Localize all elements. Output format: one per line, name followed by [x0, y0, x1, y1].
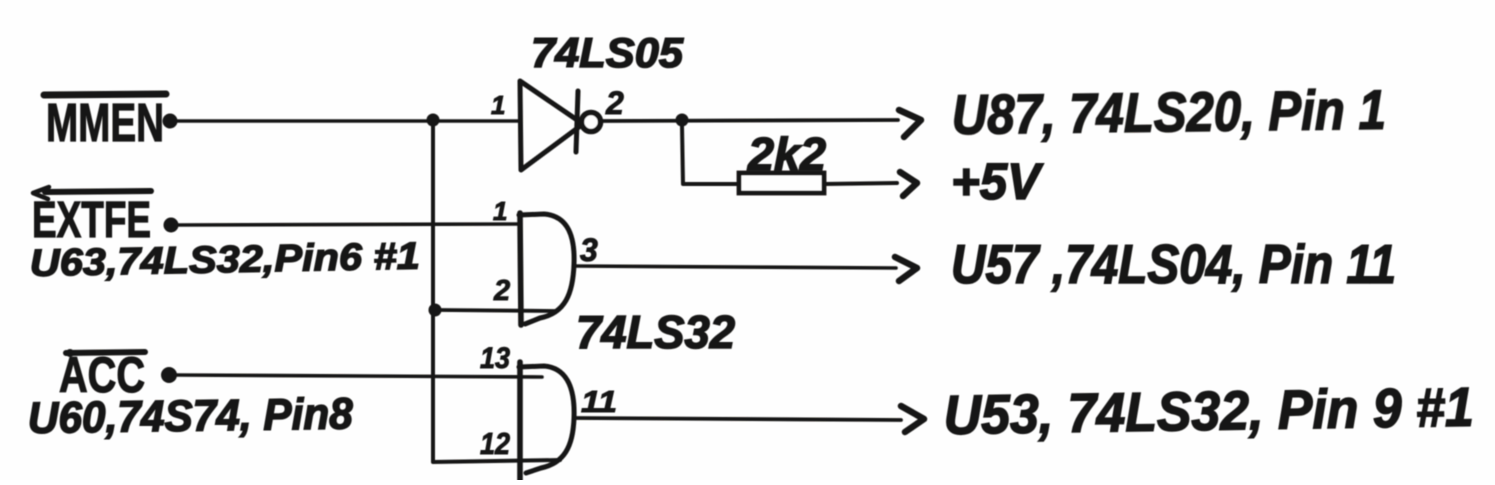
- wire inverter output: [601, 120, 898, 121]
- arrow to U57: [895, 257, 917, 281]
- arrow to U53: [901, 406, 924, 432]
- svg-text:1: 1: [491, 90, 505, 120]
- svg-text:U60,74S74, Pin8: U60,74S74, Pin8: [27, 389, 353, 443]
- node dot EXTFE: [164, 218, 179, 233]
- net label MMEN: [44, 93, 166, 153]
- svg-text:12: 12: [480, 426, 510, 461]
- node dot on bus to pin 2: [429, 304, 442, 317]
- wire MMEN to inverter input: [176, 119, 519, 123]
- svg-text:11: 11: [581, 384, 617, 419]
- wire bus to gate pin 2: [439, 310, 555, 311]
- wire vertical bus from MMEN down: [433, 124, 560, 462]
- or-gate 74LS32 (pins 1,2,3): [519, 213, 574, 325]
- svg-text:U87, 74LS20, Pin 1: U87, 74LS20, Pin 1: [951, 78, 1386, 146]
- node dot output branch: [676, 114, 689, 127]
- wire ACC to gate pin 13: [176, 375, 542, 377]
- arrow to +5V: [900, 172, 917, 196]
- net label EXTFE: [32, 187, 151, 248]
- svg-text:1: 1: [493, 196, 507, 226]
- svg-text:2: 2: [493, 275, 510, 307]
- resistor 2k2: [739, 173, 824, 193]
- svg-text:74LS32: 74LS32: [576, 306, 735, 358]
- svg-text:3: 3: [580, 232, 598, 268]
- svg-text:U63,74LS32,Pin6 #1: U63,74LS32,Pin6 #1: [29, 236, 420, 285]
- svg-text:13: 13: [480, 342, 510, 375]
- svg-text:U57 ,74LS04, Pin 11: U57 ,74LS04, Pin 11: [951, 233, 1396, 295]
- svg-text:MMEN: MMEN: [46, 93, 164, 153]
- wire gate output to U53: [575, 418, 901, 420]
- wire gate output to U57: [574, 266, 896, 268]
- node dot ACC: [161, 367, 177, 383]
- svg-text:U53, 74LS32, Pin 9 #1: U53, 74LS32, Pin 9 #1: [943, 376, 1474, 446]
- node junction on MMEN wire: [427, 114, 440, 127]
- wire EXTFE to gate pin 1: [177, 224, 520, 225]
- arrow to U87: [899, 110, 921, 137]
- net label ACC: [59, 347, 145, 403]
- inverter U 74LS05: [520, 81, 601, 170]
- node dot MMEN: [163, 114, 178, 129]
- wire branch down to resistor: [682, 126, 739, 184]
- or-gate 74LS32 (pins 13,12,11): [519, 362, 574, 480]
- wire resistor to +5V arrow: [824, 183, 897, 184]
- svg-text:+5V: +5V: [951, 153, 1044, 210]
- svg-text:2: 2: [605, 85, 624, 121]
- svg-text:74LS05: 74LS05: [531, 29, 684, 76]
